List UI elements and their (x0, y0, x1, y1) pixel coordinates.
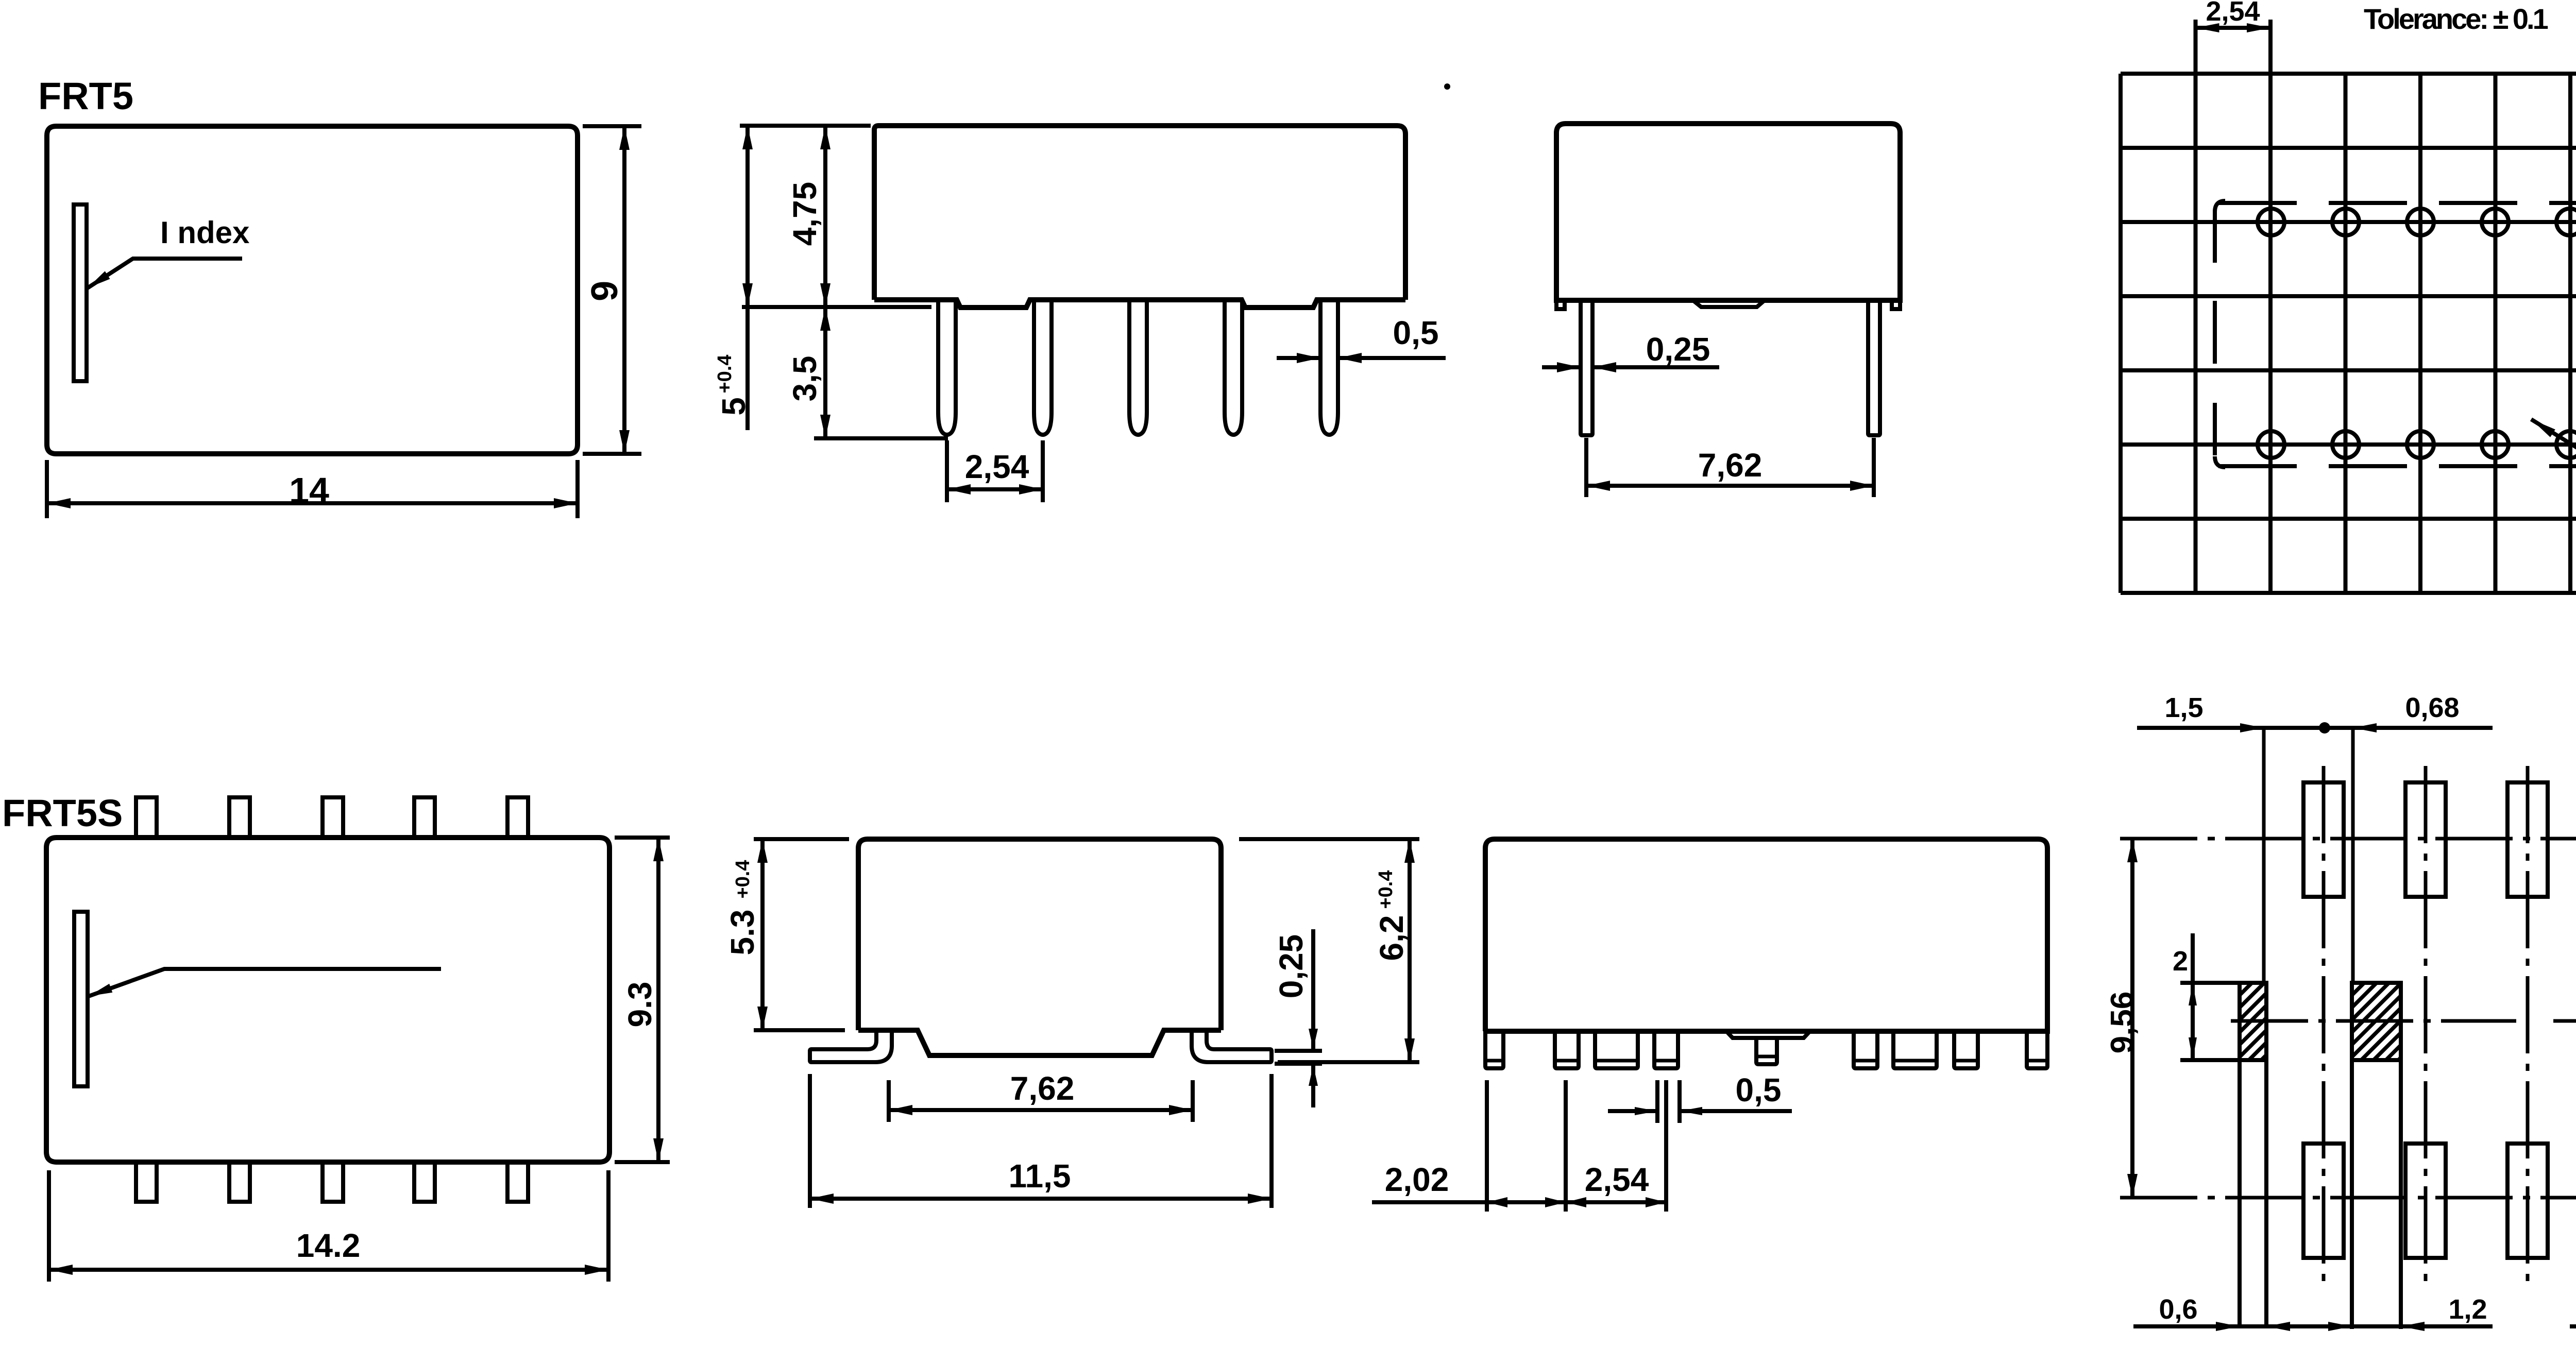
svg-text:4,75: 4,75 (786, 182, 823, 246)
svg-text:FRT5: FRT5 (38, 75, 133, 117)
svg-text:0,25: 0,25 (1646, 331, 1710, 368)
svg-text:1,2: 1,2 (2448, 1294, 2487, 1325)
svg-text:I ndex: I ndex (160, 215, 249, 250)
svg-text:FRT5S: FRT5S (2, 792, 123, 834)
svg-text:0,25: 0,25 (1273, 934, 1310, 999)
svg-text:9,56: 9,56 (2105, 992, 2140, 1054)
svg-text:5.3: 5.3 (724, 910, 761, 956)
svg-text:0,6: 0,6 (2159, 1294, 2197, 1325)
svg-text:5: 5 (715, 397, 752, 416)
svg-text:2,54: 2,54 (1585, 1161, 1649, 1198)
svg-text:Tolerance: ± 0.1: Tolerance: ± 0.1 (2364, 3, 2548, 35)
svg-text:+0.4: +0.4 (732, 860, 754, 898)
svg-text:2: 2 (2173, 946, 2188, 977)
svg-text:7,62: 7,62 (1010, 1070, 1075, 1107)
svg-text:0,68: 0,68 (2405, 692, 2459, 723)
svg-text:+0.4: +0.4 (714, 354, 736, 393)
svg-text:6,2: 6,2 (1373, 915, 1410, 961)
svg-text:14: 14 (289, 470, 329, 510)
svg-text:9.3: 9.3 (621, 982, 658, 1028)
svg-text:0,5: 0,5 (1736, 1071, 1782, 1109)
svg-text:3,5: 3,5 (786, 356, 823, 402)
svg-text:1,5: 1,5 (2164, 692, 2203, 723)
svg-text:14.2: 14.2 (296, 1227, 361, 1264)
svg-text:2,02: 2,02 (1385, 1161, 1449, 1198)
svg-text:2,54: 2,54 (2206, 0, 2260, 27)
svg-text:11,5: 11,5 (1008, 1157, 1071, 1195)
svg-text:9: 9 (584, 281, 625, 301)
svg-text:7,62: 7,62 (1698, 447, 1762, 484)
svg-text:0,5: 0,5 (1393, 314, 1439, 351)
svg-text:+0.4: +0.4 (1375, 870, 1397, 909)
svg-text:2,54: 2,54 (965, 448, 1029, 485)
